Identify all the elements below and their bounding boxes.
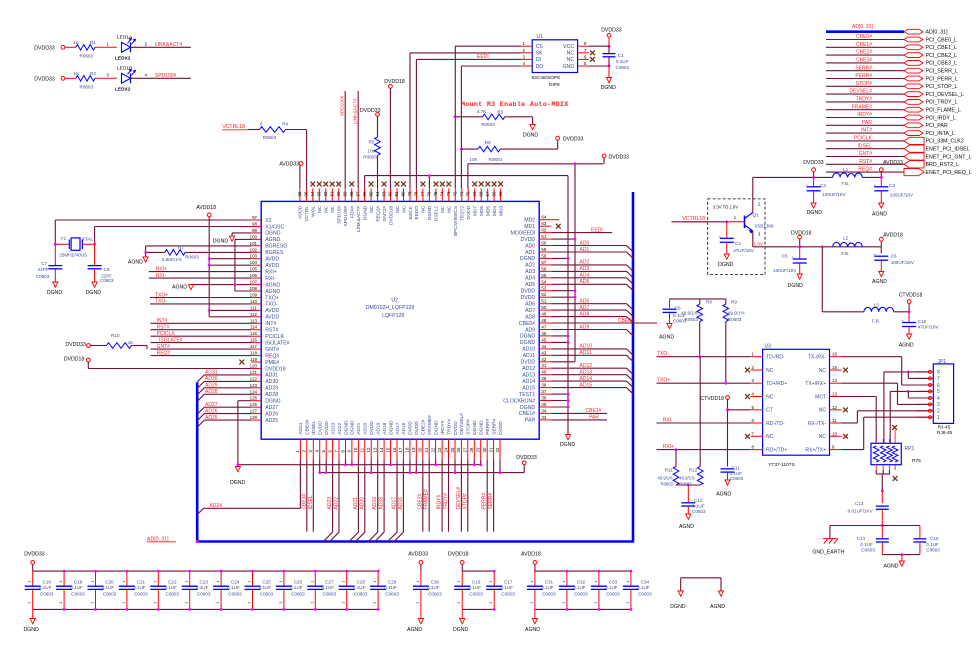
svg-text:47UF/16V: 47UF/16V [918, 325, 940, 330]
svg-text:59: 59 [541, 247, 546, 252]
svg-text:0.1UF: 0.1UF [573, 585, 586, 590]
svg-text:INT#: INT# [265, 321, 276, 327]
svg-text:AD1: AD1 [580, 247, 590, 253]
svg-text:NC: NC [401, 205, 407, 212]
svg-text:AGND: AGND [407, 627, 422, 633]
svg-text:18: 18 [405, 447, 410, 452]
svg-text:58: 58 [541, 253, 546, 258]
svg-text:DVDD18: DVDD18 [384, 79, 405, 85]
svg-text:IRDY#: IRDY# [440, 420, 446, 434]
svg-text:RXI-: RXI- [156, 273, 166, 279]
svg-text:C12: C12 [694, 498, 703, 503]
svg-text:88: 88 [349, 191, 354, 196]
svg-text:AD21: AD21 [356, 422, 362, 434]
svg-text:16: 16 [832, 352, 837, 357]
svg-text:C0603: C0603 [71, 591, 85, 596]
svg-text:DVDD33: DVDD33 [65, 342, 86, 348]
svg-text:AD19: AD19 [376, 422, 382, 434]
svg-text:AD10: AD10 [580, 344, 593, 350]
svg-text:2: 2 [562, 602, 566, 604]
svg-text:LEDX2: LEDX2 [115, 86, 131, 92]
svg-text:R0603: R0603 [80, 85, 94, 90]
svg-text:0.1UF: 0.1UF [322, 585, 335, 590]
svg-text:10K: 10K [469, 157, 478, 162]
svg-text:DVDD33: DVDD33 [34, 76, 55, 82]
svg-text:100UF/16V: 100UF/16V [773, 268, 797, 273]
svg-text:TXO+: TXO+ [265, 295, 279, 301]
svg-text:CT: CT [766, 408, 773, 414]
svg-text:GNT#: GNT# [265, 347, 279, 353]
svg-text:69: 69 [472, 191, 477, 196]
svg-text:DVDD: DVDD [520, 360, 535, 366]
svg-text:37: 37 [541, 389, 546, 394]
svg-text:TXO-: TXO- [155, 299, 167, 305]
svg-text:46: 46 [541, 331, 546, 336]
svg-text:1: 1 [185, 581, 189, 583]
svg-text:90: 90 [336, 191, 341, 196]
svg-text:67: 67 [485, 191, 490, 196]
svg-text:F.B.: F.B. [841, 181, 849, 186]
svg-text:C16: C16 [472, 580, 481, 585]
svg-text:EEDO: EEDO [414, 206, 420, 220]
svg-text:102: 102 [250, 247, 258, 252]
svg-text:NC: NC [317, 205, 323, 212]
svg-text:C0603: C0603 [134, 591, 148, 596]
svg-text:AD24: AD24 [298, 422, 304, 434]
svg-text:81: 81 [394, 191, 399, 196]
svg-text:VCC: VCC [563, 44, 574, 50]
svg-text:R0603: R0603 [185, 254, 199, 259]
svg-text:80: 80 [401, 191, 406, 196]
svg-text:78: 78 [414, 191, 419, 196]
svg-text:AVDD18: AVDD18 [196, 205, 216, 211]
svg-text:36: 36 [541, 396, 546, 401]
svg-text:1: 1 [342, 581, 346, 583]
svg-text:2: 2 [279, 602, 283, 604]
svg-text:0.1UF: 0.1UF [500, 585, 513, 590]
svg-text:1: 1 [416, 581, 420, 583]
svg-text:AVDD: AVDD [265, 308, 279, 314]
svg-text:IRDY#: IRDY# [857, 112, 872, 118]
svg-text:4: 4 [937, 396, 940, 402]
svg-text:0.1UF: 0.1UF [616, 59, 629, 64]
svg-text:C30: C30 [431, 580, 440, 585]
svg-text:120: 120 [250, 364, 258, 369]
svg-text:LEDX2: LEDX2 [115, 55, 131, 61]
svg-text:AVDD33: AVDD33 [279, 162, 299, 168]
svg-text:MD5: MD5 [486, 206, 492, 216]
svg-text:U2: U2 [391, 298, 398, 304]
svg-text:1: 1 [28, 581, 32, 583]
svg-text:F.B.: F.B. [841, 251, 849, 256]
svg-text:0.1UF: 0.1UF [468, 585, 481, 590]
svg-text:50: 50 [541, 305, 546, 310]
svg-text:DVDD: DVDD [520, 295, 535, 301]
svg-text:AGND: AGND [872, 279, 887, 285]
svg-text:100UF/16V: 100UF/16V [822, 192, 846, 197]
svg-text:ENET_PCI_IDSEL: ENET_PCI_IDSEL [926, 147, 970, 153]
svg-text:32: 32 [495, 447, 500, 452]
svg-text:LED1B: LED1B [117, 66, 132, 72]
svg-text:109: 109 [250, 293, 258, 298]
svg-text:10: 10 [832, 431, 837, 436]
svg-text:7: 7 [937, 376, 940, 382]
svg-text:82: 82 [388, 191, 393, 196]
svg-text:2SB1386: 2SB1386 [755, 224, 774, 229]
svg-text:0.1UF: 0.1UF [605, 585, 618, 590]
svg-text:AD18: AD18 [382, 422, 388, 434]
svg-text:AD3: AD3 [580, 266, 590, 272]
svg-text:PCI_INTA_L: PCI_INTA_L [926, 131, 955, 137]
svg-text:AD11: AD11 [523, 353, 536, 359]
svg-text:0.1UF: 0.1UF [541, 585, 554, 590]
svg-text:2: 2 [937, 409, 940, 415]
svg-text:C0603: C0603 [291, 591, 305, 596]
svg-text:97: 97 [252, 215, 257, 220]
svg-text:1: 1 [91, 581, 95, 583]
svg-text:AD5: AD5 [580, 279, 590, 285]
svg-text:MD3: MD3 [498, 206, 504, 216]
svg-text:PME#: PME# [265, 360, 279, 366]
svg-text:CBE3#: CBE3# [305, 419, 311, 435]
svg-text:C0603: C0603 [40, 591, 54, 596]
svg-text:VCTRL: VCTRL [304, 206, 310, 222]
svg-text:2: 2 [342, 602, 346, 604]
svg-text:PCI_STOP_L: PCI_STOP_L [926, 84, 958, 90]
svg-text:C28: C28 [357, 580, 366, 585]
svg-text:101: 101 [250, 241, 258, 246]
svg-text:DVDD: DVDD [466, 205, 472, 219]
svg-text:43: 43 [541, 350, 546, 355]
svg-text:MD7: MD7 [473, 206, 479, 216]
svg-text:11: 11 [360, 447, 365, 452]
svg-text:AD28: AD28 [205, 389, 218, 395]
svg-text:RST#: RST# [265, 328, 278, 334]
svg-text:CBE1#: CBE1# [519, 411, 536, 417]
svg-text:0.1UF: 0.1UF [39, 585, 52, 590]
svg-text:98: 98 [252, 222, 257, 227]
svg-text:100UF/16V: 100UF/16V [891, 260, 915, 265]
svg-text:NC: NC [447, 205, 453, 212]
svg-text:GND_EARTH: GND_EARTH [812, 550, 844, 556]
svg-text:BGRES: BGRES [265, 250, 284, 256]
svg-text:2: 2 [91, 602, 95, 604]
svg-text:2: 2 [489, 602, 493, 604]
svg-text:100: 100 [250, 234, 258, 239]
svg-text:30: 30 [482, 447, 487, 452]
svg-text:DM9102H_LQFP128: DM9102H_LQFP128 [366, 305, 415, 311]
svg-text:14: 14 [832, 378, 837, 383]
svg-text:AD15: AD15 [580, 382, 593, 388]
svg-text:DGND: DGND [47, 290, 63, 296]
svg-text:64: 64 [541, 215, 546, 220]
svg-text:94: 94 [310, 191, 315, 196]
svg-text:15: 15 [385, 447, 390, 452]
svg-text:AVDD: AVDD [265, 315, 279, 321]
svg-text:DGND: DGND [807, 210, 823, 216]
svg-text:CLOCKRUN#: CLOCKRUN# [503, 398, 535, 404]
svg-text:113: 113 [250, 318, 258, 323]
svg-text:126: 126 [250, 402, 258, 407]
svg-text:PAR: PAR [589, 415, 599, 421]
svg-text:91: 91 [330, 191, 335, 196]
svg-text:C1: C1 [618, 53, 624, 58]
svg-text:R10: R10 [111, 333, 120, 338]
svg-text:C0603: C0603 [926, 548, 940, 553]
svg-text:26: 26 [456, 447, 461, 452]
svg-text:AD25: AD25 [265, 418, 278, 424]
svg-text:X1/OSC: X1/OSC [265, 224, 284, 230]
svg-text:C0603: C0603 [469, 591, 483, 596]
svg-text:1: 1 [59, 581, 63, 583]
svg-text:AGND: AGND [128, 260, 143, 266]
svg-text:AD12: AD12 [522, 366, 535, 372]
svg-text:DGND: DGND [520, 334, 536, 340]
svg-text:10K: 10K [367, 148, 376, 153]
svg-text:2: 2 [59, 602, 63, 604]
svg-text:FRAME#: FRAME# [427, 415, 433, 435]
svg-text:AD14: AD14 [580, 376, 593, 382]
svg-text:PCI_PAR: PCI_PAR [926, 123, 948, 129]
svg-text:DGND: DGND [520, 340, 536, 346]
svg-text:GNT#: GNT# [859, 151, 873, 157]
svg-text:C21: C21 [137, 580, 146, 585]
svg-text:DVDD33: DVDD33 [24, 552, 45, 558]
svg-text:R3: R3 [497, 109, 503, 114]
svg-text:IDSEL: IDSEL [311, 421, 317, 435]
svg-text:AVDD: AVDD [265, 257, 279, 263]
svg-text:RX-/TX-: RX-/TX- [808, 421, 826, 427]
svg-text:MD4: MD4 [492, 206, 498, 216]
svg-text:PCICLK: PCICLK [265, 334, 284, 340]
svg-text:RXI+: RXI+ [265, 269, 277, 275]
svg-text:14: 14 [379, 447, 384, 452]
svg-text:CBE0#: CBE0# [618, 318, 634, 324]
svg-text:AD3: AD3 [525, 269, 535, 275]
svg-text:R75: R75 [912, 458, 921, 464]
svg-text:27: 27 [463, 447, 468, 452]
svg-text:CBE0#: CBE0# [519, 321, 536, 327]
svg-text:AD25: AD25 [205, 415, 218, 421]
svg-text:AD0: AD0 [580, 240, 590, 246]
svg-text:C13: C13 [855, 501, 864, 506]
svg-text:2: 2 [28, 602, 32, 604]
svg-text:6: 6 [937, 383, 940, 389]
svg-text:C20: C20 [105, 580, 114, 585]
svg-text:AD10: AD10 [522, 347, 535, 353]
svg-text:65: 65 [498, 191, 503, 196]
svg-text:DGND: DGND [453, 627, 469, 633]
svg-text:NC: NC [766, 368, 774, 374]
svg-text:C0603: C0603 [385, 591, 399, 596]
svg-text:MD0/EEDI: MD0/EEDI [511, 230, 536, 236]
svg-text:REQ2#: REQ2# [375, 206, 381, 222]
svg-text:2: 2 [416, 602, 420, 604]
svg-text:AGND: AGND [679, 524, 694, 530]
svg-text:AD15: AD15 [522, 385, 535, 391]
svg-text:2: 2 [530, 602, 534, 604]
svg-text:DGND: DGND [670, 604, 686, 610]
svg-text:DVDD33: DVDD33 [516, 455, 537, 461]
svg-text:1: 1 [457, 581, 461, 583]
svg-text:C5: C5 [782, 254, 788, 259]
svg-text:1K: 1K [128, 340, 135, 345]
svg-text:C0603: C0603 [692, 509, 706, 514]
svg-text:AD26: AD26 [205, 408, 218, 414]
svg-text:115: 115 [250, 331, 258, 336]
svg-text:AD23: AD23 [330, 422, 336, 434]
svg-text:128: 128 [250, 415, 258, 420]
svg-text:TRDY#: TRDY# [446, 419, 452, 435]
svg-text:INT#: INT# [861, 128, 872, 134]
svg-text:PERR#: PERR# [482, 493, 488, 510]
svg-text:0.1UF: 0.1UF [692, 504, 705, 509]
svg-text:TXO+: TXO+ [657, 378, 670, 384]
svg-text:SPD100#: SPD100# [340, 95, 346, 116]
svg-text:TX-/RX-: TX-/RX- [808, 355, 826, 361]
svg-text:AD13: AD13 [580, 370, 593, 376]
svg-text:C0603: C0603 [861, 548, 875, 553]
svg-text:GND: GND [563, 64, 575, 70]
svg-text:AD8: AD8 [580, 311, 590, 317]
svg-text:0.1UF: 0.1UF [353, 585, 366, 590]
svg-text:C0603: C0603 [100, 278, 114, 283]
svg-text:AGND: AGND [710, 604, 725, 610]
svg-text:AD22: AD22 [334, 497, 340, 510]
svg-text:R2: R2 [90, 71, 96, 76]
svg-text:38: 38 [541, 383, 546, 388]
svg-text:DGND: DGND [479, 420, 485, 435]
svg-text:21: 21 [424, 447, 429, 452]
svg-text:C23: C23 [200, 580, 209, 585]
svg-text:DVDD: DVDD [408, 421, 414, 435]
svg-text:JP1: JP1 [938, 359, 947, 365]
svg-text:61: 61 [541, 234, 546, 239]
svg-text:93: 93 [317, 191, 322, 196]
svg-text:AD8: AD8 [525, 314, 535, 320]
svg-text:AD1: AD1 [525, 250, 535, 256]
svg-text:C10: C10 [918, 319, 927, 324]
svg-text:L1: L1 [843, 167, 849, 172]
svg-text:DEVSEL#: DEVSEL# [459, 413, 465, 435]
svg-text:2: 2 [373, 602, 377, 604]
svg-text:PCI_33M_CLK2: PCI_33M_CLK2 [926, 139, 964, 145]
svg-text:SERR#: SERR# [855, 65, 872, 71]
svg-text:AD20: AD20 [359, 497, 365, 510]
svg-text:R4: R4 [282, 121, 288, 126]
svg-text:0.1UF: 0.1UF [133, 585, 146, 590]
svg-text:C2: C2 [820, 183, 826, 188]
svg-text:NC: NC [395, 205, 401, 212]
svg-text:AD31: AD31 [265, 373, 278, 379]
svg-text:5: 5 [937, 389, 940, 395]
svg-text:IRDY#: IRDY# [437, 495, 443, 510]
svg-text:84: 84 [375, 191, 380, 196]
svg-text:STOP#: STOP# [462, 493, 468, 510]
svg-text:LINK&ACT#: LINK&ACT# [155, 42, 182, 48]
svg-text:DGND: DGND [265, 231, 281, 237]
svg-text:0.1UF: 0.1UF [637, 585, 650, 590]
svg-text:AGND: AGND [716, 492, 731, 498]
svg-text:AD27: AD27 [265, 405, 278, 411]
svg-text:C0603: C0603 [638, 591, 652, 596]
svg-text:11: 11 [832, 418, 837, 423]
svg-text:0: 0 [260, 121, 263, 126]
svg-text:DGND: DGND [472, 420, 478, 435]
svg-text:RD+/TD+: RD+/TD+ [766, 447, 787, 453]
svg-text:AD2: AD2 [580, 260, 590, 266]
svg-text:CTVDD18: CTVDD18 [899, 293, 923, 299]
svg-text:C24: C24 [231, 580, 240, 585]
svg-text:116: 116 [250, 338, 258, 343]
svg-text:PCICLK: PCICLK [854, 136, 873, 142]
svg-text:DGND: DGND [718, 262, 734, 268]
svg-text:CBE1#: CBE1# [586, 408, 602, 414]
svg-text:105: 105 [250, 267, 258, 272]
svg-text:AD29: AD29 [205, 383, 218, 389]
svg-text:ENET_PCI_REQ_L: ENET_PCI_REQ_L [926, 170, 972, 176]
svg-text:12: 12 [832, 405, 837, 410]
svg-text:R7: R7 [178, 245, 184, 250]
svg-text:25MHZ/40US: 25MHZ/40US [59, 252, 87, 257]
svg-text:125: 125 [250, 396, 258, 401]
svg-text:AVDD33: AVDD33 [408, 552, 428, 558]
svg-text:C31: C31 [545, 580, 554, 585]
svg-text:33: 33 [541, 415, 546, 420]
svg-text:34: 34 [541, 408, 546, 413]
svg-text:CBE1#: CBE1# [856, 42, 872, 48]
svg-text:3.3V TO 1.8V: 3.3V TO 1.8V [713, 204, 738, 209]
svg-text:119: 119 [250, 357, 258, 362]
svg-text:118: 118 [250, 351, 258, 356]
svg-text:RD-/TD-: RD-/TD- [766, 421, 785, 427]
svg-text:R1: R1 [90, 40, 96, 45]
svg-text:DVDD18: DVDD18 [791, 231, 812, 237]
svg-text:2: 2 [248, 602, 252, 604]
svg-text:0.1UF: 0.1UF [290, 585, 303, 590]
svg-text:BGRESG: BGRESG [265, 244, 287, 250]
svg-text:CBE2#: CBE2# [856, 50, 872, 56]
svg-text:U1: U1 [537, 34, 544, 40]
svg-text:74: 74 [440, 191, 445, 196]
svg-text:ENET_PCI_GNT_L: ENET_PCI_GNT_L [926, 154, 972, 160]
svg-text:RXI+: RXI+ [663, 444, 674, 450]
svg-text:DGND: DGND [86, 290, 102, 296]
svg-text:92: 92 [323, 191, 328, 196]
svg-text:73: 73 [446, 191, 451, 196]
svg-text:NC: NC [330, 205, 336, 212]
svg-text:XTAL: XTAL [82, 236, 94, 242]
svg-text:C0603: C0603 [166, 591, 180, 596]
svg-text:35: 35 [541, 402, 546, 407]
svg-text:76: 76 [427, 191, 432, 196]
svg-text:C0603: C0603 [354, 591, 368, 596]
svg-text:LINK&ACT#: LINK&ACT# [353, 98, 359, 124]
svg-text:R0603: R0603 [728, 317, 742, 322]
svg-text:AGND: AGND [265, 289, 280, 295]
svg-text:DGND: DGND [520, 405, 536, 411]
svg-text:54: 54 [541, 279, 546, 284]
svg-text:AD13: AD13 [522, 373, 535, 379]
svg-text:1: 1 [310, 581, 314, 583]
svg-text:DVDD18: DVDD18 [265, 366, 286, 372]
svg-text:AD22: AD22 [337, 422, 343, 434]
svg-text:0.1UF: 0.1UF [165, 585, 178, 590]
svg-text:19: 19 [411, 447, 416, 452]
svg-text:71: 71 [459, 191, 464, 196]
svg-text:RXI-: RXI- [663, 418, 673, 424]
svg-text:DVDD18: DVDD18 [64, 356, 85, 362]
